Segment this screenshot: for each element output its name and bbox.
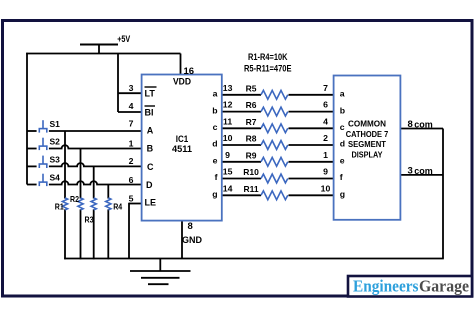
svg-text:S1: S1	[50, 119, 61, 129]
wire row d	[223, 144, 262, 146]
svg-text:11: 11	[223, 116, 232, 126]
wire LE to ground	[129, 203, 143, 205]
display box	[334, 76, 401, 220]
wire LT/BI feed	[117, 54, 119, 113]
svg-text:g: g	[340, 189, 345, 199]
wire dropper R1	[64, 131, 66, 199]
svg-text:a: a	[213, 89, 218, 99]
svg-text:f: f	[340, 172, 343, 182]
svg-text:e: e	[213, 156, 218, 166]
ground	[130, 259, 191, 285]
svg-text:14: 14	[223, 183, 233, 193]
svg-text:S3: S3	[50, 154, 61, 164]
op IC1 4511 box	[142, 75, 222, 221]
wire row a	[223, 94, 262, 96]
resistor R2	[78, 198, 83, 210]
svg-text:D: D	[146, 180, 153, 190]
resistor R10	[261, 174, 288, 183]
svg-text:R4: R4	[113, 201, 122, 211]
svg-text:S2: S2	[50, 137, 61, 147]
svg-text:3: 3	[129, 83, 134, 93]
svg-text:e: e	[340, 156, 345, 166]
svg-text:R3: R3	[85, 215, 94, 225]
svg-text:2: 2	[323, 133, 328, 143]
svg-text:9: 9	[323, 167, 328, 177]
svg-text:com: com	[414, 120, 433, 130]
svg-text:d: d	[340, 139, 345, 149]
svg-text:CATHODE 7: CATHODE 7	[346, 129, 389, 139]
wire dropper R3	[93, 166, 95, 198]
wire row e	[223, 161, 262, 163]
wire com rail	[442, 129, 444, 259]
wire pin3 stub	[118, 92, 143, 94]
svg-text:LT: LT	[145, 88, 156, 98]
wire 8com	[400, 128, 443, 130]
resistor R4	[106, 198, 111, 210]
svg-text:VDD: VDD	[173, 77, 191, 88]
svg-text:16: 16	[184, 66, 195, 77]
wire row f	[223, 178, 262, 180]
svg-text:6: 6	[323, 100, 328, 110]
svg-text:8: 8	[188, 221, 193, 232]
resistor R9	[261, 157, 288, 166]
svg-text:d: d	[212, 139, 217, 149]
svg-text:R8: R8	[246, 134, 257, 144]
wire top rail	[26, 53, 180, 55]
svg-text:S4: S4	[50, 173, 61, 183]
switch S3	[39, 156, 48, 168]
svg-text:7: 7	[323, 83, 328, 93]
wire row C with hops	[27, 165, 37, 167]
svg-text:R5-R11=470E: R5-R11=470E	[244, 63, 292, 73]
logo EngineersGarage	[348, 276, 472, 297]
wire pin4 stub	[118, 111, 143, 113]
wire left rail	[26, 53, 28, 185]
svg-text:10: 10	[223, 133, 233, 143]
svg-text:4: 4	[323, 116, 328, 126]
svg-text:R11: R11	[243, 184, 258, 194]
svg-text:COMMON: COMMON	[348, 119, 386, 129]
svg-text:6: 6	[129, 175, 134, 185]
svg-text:f: f	[215, 172, 218, 182]
wire dropper R2	[80, 149, 82, 199]
resistor R11	[261, 191, 288, 200]
svg-text:Garage: Garage	[419, 276, 469, 295]
switch S4	[39, 174, 48, 186]
svg-text:R10: R10	[243, 167, 259, 177]
resistor R6	[261, 107, 288, 116]
svg-text:c: c	[213, 122, 218, 132]
svg-text:9: 9	[225, 150, 230, 160]
svg-text:R7: R7	[246, 117, 257, 127]
svg-text:7: 7	[129, 119, 134, 129]
resistor R5	[261, 90, 288, 99]
svg-text:B: B	[147, 143, 154, 153]
svg-text:1: 1	[323, 150, 328, 160]
svg-text:DISPLAY: DISPLAY	[352, 150, 383, 160]
wire row A	[27, 130, 37, 132]
wire to pin16	[180, 54, 182, 75]
svg-text:15: 15	[223, 167, 233, 177]
svg-text:LE: LE	[145, 198, 157, 208]
wire R4 bottom lead	[107, 209, 109, 259]
svg-text:R9: R9	[246, 150, 257, 160]
wire row g	[223, 194, 262, 196]
svg-text:4511: 4511	[172, 144, 192, 154]
switch S1	[39, 120, 48, 132]
svg-text:5: 5	[129, 193, 134, 203]
wire bottom bus	[64, 258, 444, 260]
wire dropper R4	[107, 185, 109, 199]
svg-text:8: 8	[408, 119, 413, 130]
switch S2	[39, 138, 48, 150]
wire R2 bottom lead	[80, 209, 82, 259]
wire row b	[223, 111, 262, 113]
svg-text:com: com	[414, 166, 433, 176]
wire GND pin8	[181, 221, 183, 259]
svg-text:1: 1	[129, 138, 134, 148]
+5V supply bar	[80, 45, 118, 54]
svg-text:g: g	[212, 189, 217, 199]
resistor R8	[261, 141, 288, 150]
svg-text:R2: R2	[70, 194, 79, 204]
wire 3com	[400, 174, 443, 176]
svg-text:a: a	[340, 89, 345, 99]
svg-text:C: C	[147, 162, 154, 172]
svg-text:b: b	[212, 105, 217, 115]
resistor R7	[261, 124, 288, 133]
svg-text:BI: BI	[145, 108, 154, 118]
svg-text:c: c	[340, 122, 345, 132]
svg-text:b: b	[340, 105, 345, 115]
wire row c	[223, 127, 262, 129]
svg-text:R5: R5	[246, 83, 257, 93]
svg-text:SEGMENT: SEGMENT	[348, 139, 387, 149]
resistor R3	[91, 198, 96, 210]
svg-text:R6: R6	[246, 100, 257, 110]
svg-text:GND: GND	[182, 235, 202, 246]
svg-text:13: 13	[223, 83, 233, 93]
wire row D with hops	[27, 184, 37, 186]
svg-text:A: A	[147, 125, 154, 135]
svg-text:R1: R1	[55, 201, 64, 211]
wire R1 bottom lead	[64, 209, 66, 259]
wire row B with hop	[27, 148, 37, 150]
svg-text:Engineers: Engineers	[353, 276, 419, 295]
wire R3 bottom lead	[93, 209, 95, 259]
svg-text:12: 12	[223, 100, 233, 110]
svg-text:R1-R4=10K: R1-R4=10K	[248, 52, 288, 62]
svg-text:+5V: +5V	[117, 34, 130, 44]
svg-text:4: 4	[129, 101, 134, 111]
svg-text:10: 10	[321, 183, 331, 193]
svg-text:3: 3	[408, 165, 413, 176]
svg-text:IC1: IC1	[176, 134, 189, 144]
resistor R1	[62, 198, 67, 210]
svg-text:2: 2	[129, 156, 134, 166]
